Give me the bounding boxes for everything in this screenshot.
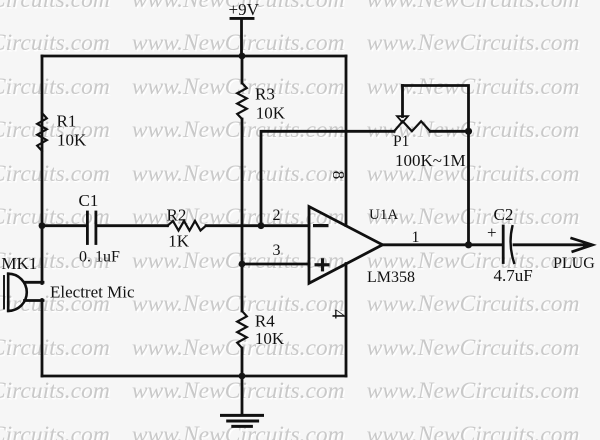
svg-text:LM358: LM358 [367, 269, 415, 286]
svg-text:R4: R4 [255, 311, 275, 330]
svg-text:R1: R1 [57, 112, 77, 131]
svg-text:C1: C1 [79, 191, 99, 210]
svg-text:+: + [487, 223, 497, 242]
svg-text:R2: R2 [167, 206, 187, 225]
svg-text:8: 8 [329, 171, 348, 180]
svg-text:U1A: U1A [369, 207, 398, 223]
svg-text:+9V: +9V [229, 0, 260, 19]
svg-text:C2: C2 [494, 205, 514, 224]
svg-text:2: 2 [273, 207, 281, 224]
svg-text:1K: 1K [168, 232, 190, 251]
svg-text:Electret Mic: Electret Mic [50, 283, 135, 302]
svg-text:4: 4 [328, 309, 349, 319]
svg-text:10K: 10K [255, 329, 285, 348]
svg-text:10K: 10K [57, 131, 87, 150]
svg-text:4.7uF: 4.7uF [494, 266, 533, 285]
svg-text:1: 1 [412, 229, 420, 246]
svg-text:0. 1uF: 0. 1uF [79, 249, 120, 266]
svg-text:R3: R3 [255, 85, 275, 104]
svg-text:100K~1M: 100K~1M [395, 151, 466, 170]
svg-text:3: 3 [273, 242, 281, 259]
svg-text:10K: 10K [256, 104, 286, 123]
svg-text:P1: P1 [393, 133, 409, 150]
svg-text:PLUG: PLUG [553, 255, 595, 272]
svg-text:MK1: MK1 [1, 254, 37, 273]
